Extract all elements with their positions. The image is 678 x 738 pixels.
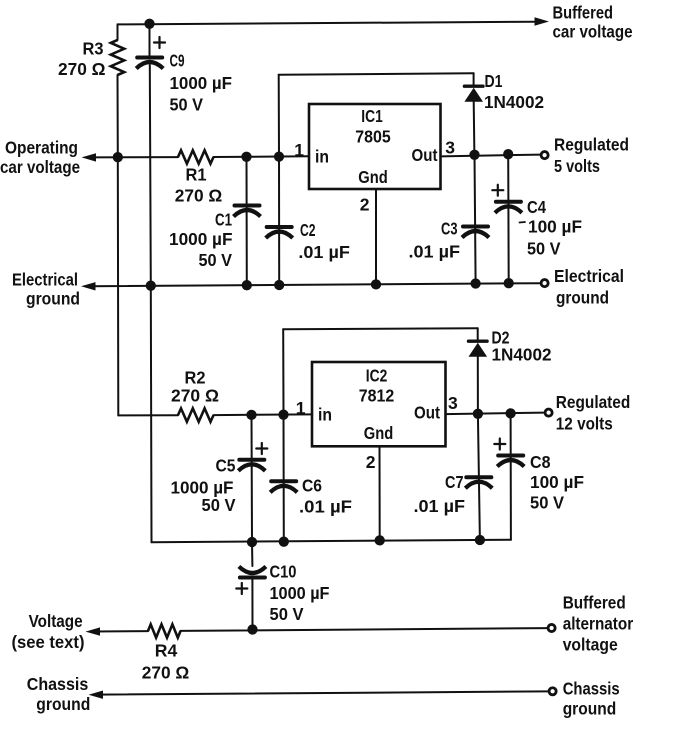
C10 label bbox=[270, 562, 297, 582]
junction R2 row / C6 bbox=[278, 410, 288, 420]
C4 tick bbox=[520, 221, 526, 224]
C8 value 50 V bbox=[530, 493, 564, 513]
wire D2 to out row bbox=[477, 357, 479, 414]
IC2 pin number 1 bbox=[296, 398, 306, 418]
svg-text:D1: D1 bbox=[485, 71, 503, 91]
C4 value 100 uF bbox=[528, 216, 582, 236]
svg-text:270 Ω: 270 Ω bbox=[175, 186, 223, 206]
svg-text:1N4002: 1N4002 bbox=[492, 345, 552, 365]
svg-text:1000 µF: 1000 µF bbox=[169, 229, 233, 249]
op-amp/regulator IC1 box bbox=[309, 104, 441, 189]
R2 label bbox=[185, 368, 206, 388]
svg-text:5 volts: 5 volts bbox=[554, 156, 600, 176]
C4 plus bbox=[492, 185, 503, 196]
C10 plus bbox=[236, 583, 247, 594]
C3 label bbox=[441, 218, 458, 238]
junction operating/R3 bbox=[113, 152, 123, 162]
capacitor C10 bbox=[239, 567, 266, 578]
svg-text:Out: Out bbox=[412, 145, 438, 165]
svg-text:50 V: 50 V bbox=[199, 250, 233, 270]
wire in-node up bbox=[278, 75, 280, 157]
junction bus/C5-C10 bbox=[247, 537, 257, 547]
svg-text:R4: R4 bbox=[155, 641, 178, 661]
svg-text:50 V: 50 V bbox=[202, 495, 236, 515]
IC2 pin label in bbox=[318, 405, 332, 425]
wire C4 branch bbox=[507, 154, 510, 283]
label ground (right) bbox=[556, 288, 609, 308]
svg-text:C7: C7 bbox=[445, 472, 464, 492]
svg-text:Buffered: Buffered bbox=[553, 3, 614, 23]
R4 value 270 Ω bbox=[142, 662, 190, 682]
capacitor C6 bbox=[270, 481, 297, 492]
svg-text:12 volts: 12 volts bbox=[556, 414, 613, 434]
wire C9 to electrical ground bbox=[150, 65, 151, 286]
label Voltage bbox=[29, 611, 83, 631]
svg-text:270 Ω: 270 Ω bbox=[58, 59, 106, 79]
svg-text:50 V: 50 V bbox=[527, 238, 561, 258]
svg-text:car voltage: car voltage bbox=[553, 22, 633, 42]
capacitor C1 bbox=[234, 206, 261, 217]
junction R1 row / C1 bbox=[241, 152, 251, 162]
capacitor C5 bbox=[238, 460, 265, 471]
C1 value 50 V bbox=[199, 250, 233, 270]
svg-text:ground: ground bbox=[563, 698, 617, 718]
svg-text:in: in bbox=[318, 405, 332, 425]
junction gnd1/C9 bbox=[146, 281, 156, 291]
svg-text:1000 µF: 1000 µF bbox=[170, 73, 233, 93]
diode D2 bbox=[469, 341, 488, 357]
svg-text:ground: ground bbox=[36, 694, 90, 714]
D2 value 1N4002 bbox=[492, 345, 552, 365]
terminal regulated 12 volts bbox=[545, 409, 552, 416]
svg-text:Chassis: Chassis bbox=[563, 678, 620, 698]
C9 plus bbox=[154, 37, 165, 48]
R3 label bbox=[83, 39, 104, 59]
svg-text:R1: R1 bbox=[186, 165, 207, 185]
junction gnd1/C2 bbox=[274, 280, 284, 290]
label Buffered (top right) bbox=[553, 3, 614, 23]
svg-text:Voltage: Voltage bbox=[29, 611, 83, 631]
svg-text:Operating: Operating bbox=[5, 137, 78, 157]
junction R4 row / C10 bbox=[247, 624, 257, 634]
wire IC2 out row bbox=[446, 413, 545, 415]
junction gnd1/C4 bbox=[504, 278, 514, 288]
wire D2 top lead bbox=[477, 328, 479, 341]
C1 value 1000 uF bbox=[169, 229, 233, 249]
IC1 part 7805 bbox=[355, 126, 391, 146]
svg-text:.01 µF: .01 µF bbox=[298, 242, 350, 262]
IC2 label bbox=[366, 366, 388, 386]
svg-text:IC1: IC1 bbox=[361, 106, 383, 126]
label Operating bbox=[5, 137, 78, 157]
resistor R4 bbox=[148, 624, 181, 637]
wire C6 branch bbox=[283, 415, 285, 542]
svg-text:2: 2 bbox=[366, 452, 376, 472]
junction R1 row / C2 bbox=[274, 151, 284, 161]
diode D1 bbox=[464, 86, 483, 102]
junction out1/C4 bbox=[503, 149, 513, 159]
wire IC1 out row bbox=[441, 155, 541, 157]
svg-text:in: in bbox=[315, 146, 329, 166]
label Regulated (5V) bbox=[554, 134, 629, 154]
svg-text:Electrical: Electrical bbox=[12, 269, 78, 289]
label car voltage (top right) bbox=[553, 22, 633, 42]
C5 value 50 V bbox=[202, 495, 236, 515]
svg-text:C9: C9 bbox=[170, 51, 185, 71]
wire R2 to IC2 pin 1 bbox=[214, 413, 312, 416]
arrow operating car voltage bbox=[82, 153, 97, 161]
D1 value 1N4002 bbox=[484, 92, 544, 112]
junction gnd1/C3 bbox=[470, 278, 480, 288]
svg-text:100 µF: 100 µF bbox=[530, 472, 584, 492]
junction gnd1/C1 bbox=[242, 280, 252, 290]
C7 label bbox=[445, 472, 464, 492]
D2 label bbox=[492, 328, 510, 348]
svg-text:C8: C8 bbox=[530, 452, 551, 472]
junction out1/D1-C3 bbox=[469, 150, 479, 160]
arrow to buffered car voltage bbox=[535, 17, 550, 25]
svg-text:alternator: alternator bbox=[563, 614, 634, 634]
IC1 pin number 3 bbox=[445, 138, 455, 158]
R3 value 270 Ω bbox=[58, 59, 106, 79]
C3 value .01 uF bbox=[409, 242, 461, 262]
label 5 volts bbox=[554, 156, 600, 176]
svg-text:Gnd: Gnd bbox=[358, 167, 388, 187]
svg-text:Buffered: Buffered bbox=[563, 593, 626, 613]
wire R4 to alternator terminal bbox=[181, 628, 548, 631]
resistor R3 bbox=[111, 40, 124, 75]
svg-text:ground: ground bbox=[26, 289, 80, 309]
label voltage (alt) bbox=[563, 635, 618, 655]
svg-text:.01 µF: .01 µF bbox=[409, 242, 461, 262]
svg-text:Chassis: Chassis bbox=[27, 674, 89, 694]
terminal buffered alternator voltage bbox=[548, 624, 555, 631]
C9 value 1000 uF bbox=[170, 73, 233, 93]
C8 label bbox=[530, 452, 551, 472]
C7 value .01 uF bbox=[414, 496, 466, 516]
IC1 label bbox=[361, 106, 383, 126]
IC2 pin number 3 bbox=[448, 393, 458, 413]
wire C10 top lead bbox=[251, 542, 253, 566]
svg-text:car voltage: car voltage bbox=[0, 157, 80, 177]
svg-text:7812: 7812 bbox=[359, 386, 395, 406]
capacitor C7 bbox=[465, 477, 492, 488]
wire top bus (buffered car voltage) bbox=[118, 22, 535, 25]
wire operating row bbox=[89, 156, 178, 158]
junction out2/D2-C7 bbox=[473, 409, 483, 419]
C6 value .01 uF bbox=[299, 496, 352, 516]
C4 value 50 V bbox=[527, 238, 561, 258]
C5 label bbox=[216, 455, 236, 475]
label (see text) bbox=[12, 632, 85, 652]
IC2 pin label Gnd bbox=[364, 423, 394, 443]
wire electrical ground row bbox=[89, 283, 541, 286]
svg-text:Regulated: Regulated bbox=[556, 392, 631, 412]
wire C9-line lower segment bbox=[150, 286, 153, 543]
IC1 pin label in bbox=[315, 146, 329, 166]
arrow electrical ground left bbox=[81, 282, 96, 290]
svg-text:Electrical: Electrical bbox=[554, 266, 624, 286]
terminal chassis ground right bbox=[549, 688, 556, 695]
resistor R1 bbox=[178, 150, 214, 163]
svg-text:.01 µF: .01 µF bbox=[299, 496, 352, 516]
label ground (left) bbox=[26, 289, 80, 309]
C6 label bbox=[302, 475, 322, 495]
label ground (chassis left) bbox=[36, 694, 90, 714]
R1 label bbox=[186, 165, 207, 185]
wire chassis ground row bbox=[96, 691, 548, 694]
label Chassis (left) bbox=[27, 674, 89, 694]
label Electrical (left) bbox=[12, 269, 78, 289]
label alternator bbox=[563, 614, 634, 634]
svg-text:270 Ω: 270 Ω bbox=[142, 662, 190, 682]
wire R3 bottom to operating row bbox=[117, 75, 119, 157]
svg-text:3: 3 bbox=[448, 393, 458, 413]
wire C5 branch bbox=[251, 415, 254, 542]
wire IC1 gnd pin bbox=[375, 189, 377, 284]
svg-text:7805: 7805 bbox=[355, 126, 391, 146]
capacitor C8 bbox=[497, 456, 524, 467]
svg-text:1: 1 bbox=[296, 398, 306, 418]
junction top bus / C9 bbox=[144, 19, 154, 29]
wire C1 branch bbox=[246, 157, 248, 285]
IC1 pin number 1 bbox=[294, 140, 304, 160]
capacitor C2 bbox=[266, 227, 293, 238]
wire D1 top lead bbox=[473, 73, 475, 86]
node top-left corner bbox=[117, 24, 119, 40]
arrow chassis ground left bbox=[89, 691, 104, 699]
junction bus/C7 bbox=[475, 535, 485, 545]
C2 value .01 uF bbox=[298, 242, 350, 262]
C10 value 50 V bbox=[270, 604, 304, 624]
wire voltage row left bbox=[93, 630, 148, 632]
svg-text:ground: ground bbox=[556, 288, 609, 308]
label car voltage (left) bbox=[0, 157, 80, 177]
C2 label bbox=[300, 220, 316, 240]
wire C3 branch bbox=[475, 155, 476, 283]
R2 value 270 Ω bbox=[171, 386, 219, 406]
capacitor C3 bbox=[462, 227, 489, 238]
R4 label bbox=[155, 641, 178, 661]
capacitor C4 bbox=[495, 202, 522, 213]
svg-text:C2: C2 bbox=[300, 220, 316, 240]
IC2 pin label Out bbox=[414, 403, 440, 423]
svg-text:C10: C10 bbox=[270, 562, 297, 582]
C10 value 1000 uF bbox=[270, 583, 330, 603]
svg-text:.01 µF: .01 µF bbox=[414, 496, 466, 516]
svg-text:100 µF: 100 µF bbox=[528, 216, 582, 236]
label Chassis (right) bbox=[563, 678, 620, 698]
svg-text:IC2: IC2 bbox=[366, 366, 388, 386]
svg-text:50 V: 50 V bbox=[170, 95, 204, 115]
C5 value 1000 uF bbox=[171, 478, 234, 498]
C9 label bbox=[170, 51, 185, 71]
IC1 pin label Out bbox=[412, 145, 438, 165]
IC2 part 7812 bbox=[359, 386, 395, 406]
C9 value 50 V bbox=[170, 95, 204, 115]
svg-text:50 V: 50 V bbox=[270, 604, 304, 624]
capacitor C9 bbox=[136, 58, 163, 69]
R1 value 270 Ω bbox=[175, 186, 223, 206]
svg-text:50 V: 50 V bbox=[530, 493, 564, 513]
junction bus/C6 bbox=[279, 537, 289, 547]
svg-text:1000 µF: 1000 µF bbox=[270, 583, 330, 603]
svg-text:C3: C3 bbox=[441, 218, 458, 238]
wire top bus to C9 bbox=[149, 24, 151, 56]
label ground (chassis right) bbox=[563, 698, 617, 718]
svg-text:1N4002: 1N4002 bbox=[484, 92, 544, 112]
wire lower ground bus bbox=[152, 540, 511, 543]
wire R3 node down to R2 row bbox=[118, 157, 178, 415]
wire D1 to out row bbox=[473, 102, 476, 155]
label Regulated (12V) bbox=[556, 392, 631, 412]
IC2 pin number 2 bbox=[366, 452, 376, 472]
wire in2-node up bbox=[282, 329, 284, 414]
wire over IC2 to D2 bbox=[283, 328, 478, 329]
svg-text:(see text): (see text) bbox=[12, 632, 85, 652]
C1 label bbox=[215, 210, 232, 230]
svg-text:R2: R2 bbox=[185, 368, 206, 388]
svg-text:C6: C6 bbox=[302, 475, 322, 495]
svg-text:1: 1 bbox=[294, 140, 304, 160]
svg-text:C1: C1 bbox=[215, 210, 232, 230]
wire C2 branch bbox=[278, 157, 280, 285]
IC1 pin number 2 bbox=[360, 195, 370, 215]
regulator IC2 box bbox=[312, 362, 446, 446]
junction bus/IC2 pin2 bbox=[375, 535, 385, 545]
svg-text:C4: C4 bbox=[527, 197, 546, 217]
label Electrical (right) bbox=[554, 266, 624, 286]
IC1 pin label Gnd bbox=[358, 167, 388, 187]
arrow voltage see text bbox=[86, 627, 101, 635]
terminal electrical ground right bbox=[541, 280, 548, 287]
svg-text:Regulated: Regulated bbox=[554, 134, 629, 154]
wire R1 to IC1 pin 1 bbox=[214, 155, 309, 158]
wire over IC1 to D1 bbox=[279, 73, 474, 75]
svg-text:Gnd: Gnd bbox=[364, 423, 394, 443]
C4 label bbox=[527, 197, 546, 217]
label Buffered (alt) bbox=[563, 593, 626, 613]
C8 plus bbox=[494, 439, 505, 450]
wire C8 branch bbox=[510, 413, 512, 539]
wire IC2 gnd pin bbox=[379, 446, 381, 540]
label 12 volts bbox=[556, 414, 613, 434]
resistor R2 bbox=[178, 408, 214, 421]
junction gnd1/IC1 pin2 bbox=[371, 279, 381, 289]
svg-text:2: 2 bbox=[360, 195, 370, 215]
terminal regulated 5 volts bbox=[541, 152, 548, 159]
wire C10 to R4 row bbox=[251, 580, 253, 630]
svg-text:3: 3 bbox=[445, 138, 455, 158]
svg-text:270 Ω: 270 Ω bbox=[171, 386, 219, 406]
junction R2 row / C5 bbox=[246, 410, 256, 420]
D1 label bbox=[485, 71, 503, 91]
svg-text:voltage: voltage bbox=[563, 635, 618, 655]
svg-text:C5: C5 bbox=[216, 455, 236, 475]
junction out2/C8 bbox=[505, 408, 515, 418]
wire C7 branch bbox=[478, 414, 480, 540]
svg-text:R3: R3 bbox=[83, 39, 104, 59]
svg-text:Out: Out bbox=[414, 403, 440, 423]
C8 value 100 uF bbox=[530, 472, 584, 492]
C5 plus bbox=[256, 443, 267, 454]
